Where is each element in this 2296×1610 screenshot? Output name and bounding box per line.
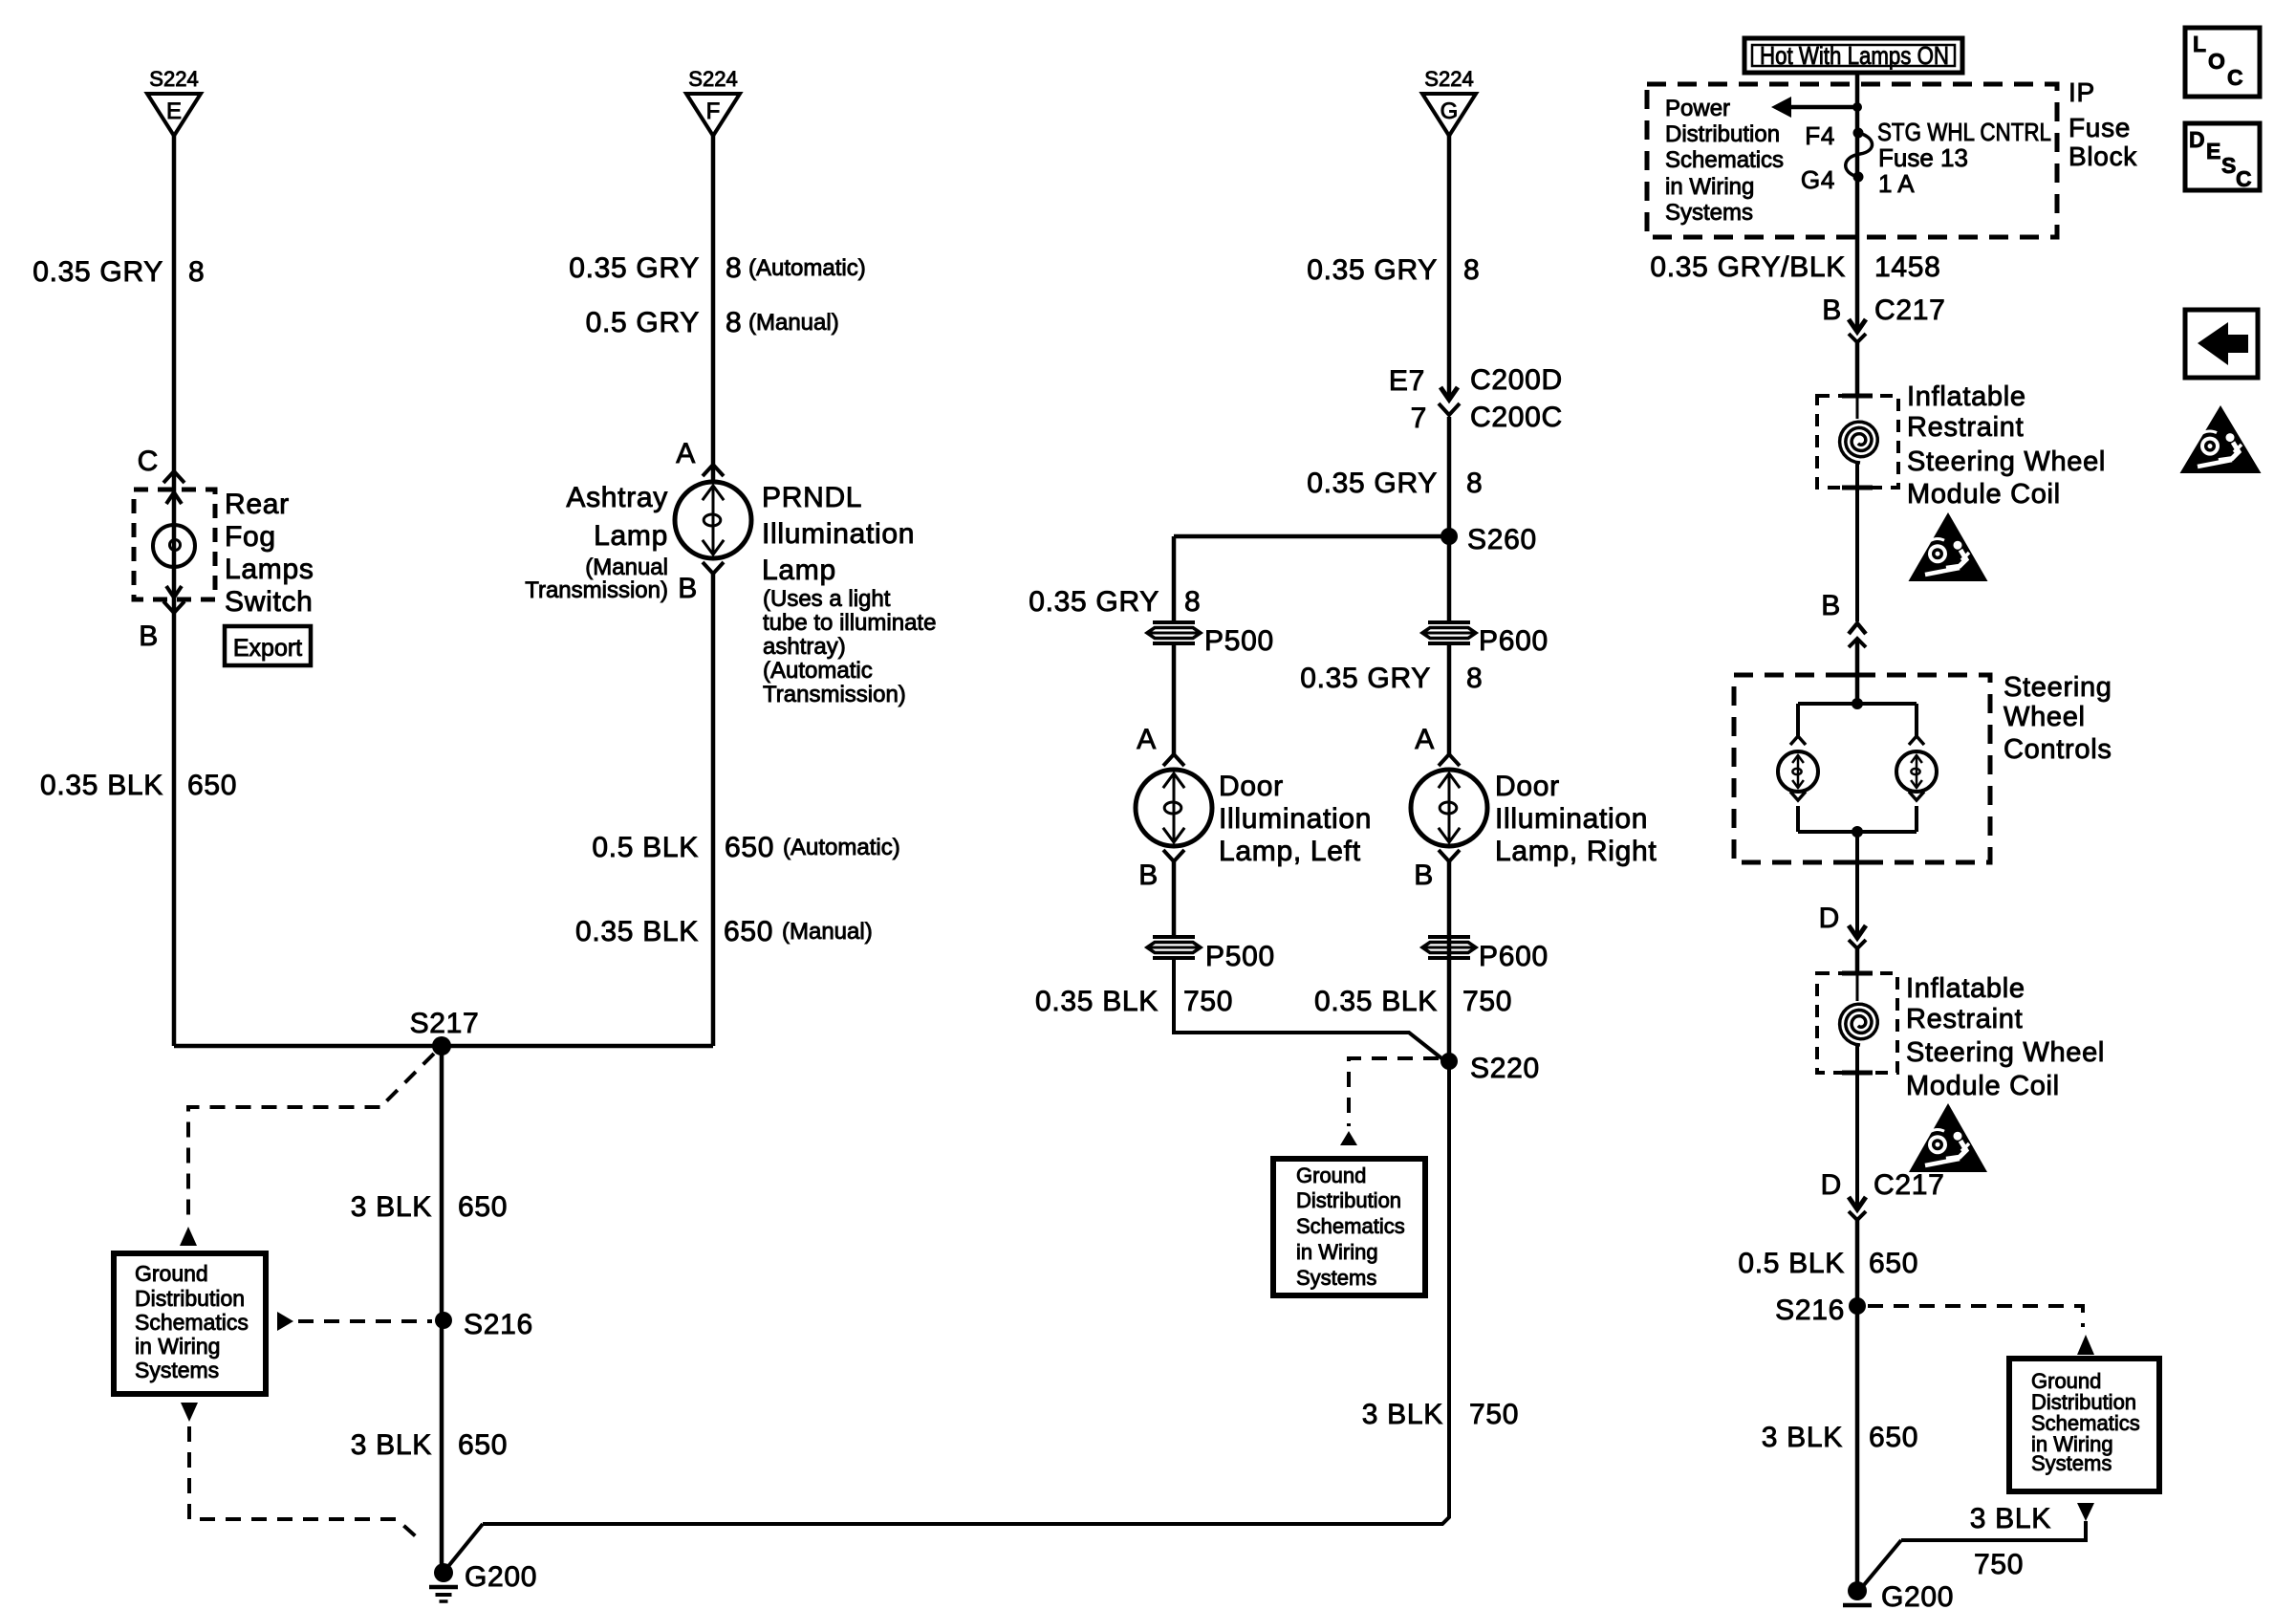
svg-text:Transmission): Transmission) bbox=[763, 682, 906, 707]
svg-text:Hot With Lamps ON: Hot With Lamps ON bbox=[1760, 41, 1949, 70]
svg-text:Restraint: Restraint bbox=[1906, 1004, 2023, 1034]
svg-text:G4: G4 bbox=[1801, 165, 1835, 194]
svg-text:Systems: Systems bbox=[2031, 1451, 2112, 1475]
svg-text:Distribution: Distribution bbox=[1296, 1188, 1401, 1212]
svg-text:B: B bbox=[1822, 294, 1842, 326]
svg-text:Distribution: Distribution bbox=[135, 1286, 245, 1311]
svg-text:Lamp, Right: Lamp, Right bbox=[1495, 836, 1657, 867]
svg-text:Illumination: Illumination bbox=[1219, 803, 1372, 835]
svg-text:1 A: 1 A bbox=[1878, 169, 1915, 198]
svg-text:0.35 GRY: 0.35 GRY bbox=[1307, 468, 1438, 499]
svg-text:Module Coil: Module Coil bbox=[1907, 479, 2061, 510]
svg-text:3 BLK: 3 BLK bbox=[351, 1191, 432, 1223]
svg-text:0.35 GRY: 0.35 GRY bbox=[1300, 663, 1431, 694]
svg-text:(Uses a light: (Uses a light bbox=[763, 586, 891, 612]
svg-text:3 BLK: 3 BLK bbox=[351, 1429, 432, 1461]
svg-text:1458: 1458 bbox=[1874, 251, 1941, 283]
svg-text:650: 650 bbox=[1869, 1422, 1918, 1453]
svg-text:3 BLK: 3 BLK bbox=[1970, 1503, 2051, 1534]
svg-text:0.35 GRY: 0.35 GRY bbox=[32, 256, 163, 288]
svg-text:Distribution: Distribution bbox=[1665, 121, 1780, 147]
svg-text:650: 650 bbox=[724, 916, 773, 947]
svg-text:S224: S224 bbox=[149, 67, 198, 91]
svg-text:(Manual): (Manual) bbox=[748, 310, 839, 336]
svg-text:650: 650 bbox=[458, 1429, 508, 1461]
svg-text:Schematics: Schematics bbox=[135, 1310, 249, 1335]
svg-text:Lamp: Lamp bbox=[594, 520, 668, 552]
svg-text:P500: P500 bbox=[1204, 625, 1274, 657]
svg-text:B: B bbox=[139, 620, 159, 652]
svg-text:750: 750 bbox=[1183, 986, 1233, 1017]
svg-text:Inflatable: Inflatable bbox=[1906, 973, 2025, 1004]
svg-text:Schematics: Schematics bbox=[1665, 147, 1784, 173]
svg-text:0.5 BLK: 0.5 BLK bbox=[1738, 1248, 1845, 1279]
svg-text:G: G bbox=[1440, 98, 1459, 124]
svg-text:Door: Door bbox=[1495, 771, 1560, 802]
svg-text:O: O bbox=[2208, 49, 2225, 74]
svg-text:0.35 BLK: 0.35 BLK bbox=[1035, 986, 1159, 1017]
svg-text:Lamp, Left: Lamp, Left bbox=[1219, 836, 1361, 867]
svg-text:8: 8 bbox=[1466, 468, 1483, 499]
svg-text:B: B bbox=[1821, 590, 1841, 621]
svg-text:C200C: C200C bbox=[1470, 402, 1563, 433]
svg-text:750: 750 bbox=[1462, 986, 1512, 1017]
svg-text:3 BLK: 3 BLK bbox=[1762, 1422, 1843, 1453]
svg-text:A: A bbox=[676, 438, 696, 469]
svg-text:Ground: Ground bbox=[1296, 1164, 1366, 1187]
svg-text:F4: F4 bbox=[1805, 121, 1835, 150]
svg-text:(Automatic): (Automatic) bbox=[748, 255, 866, 281]
svg-text:C: C bbox=[138, 446, 159, 477]
svg-text:L: L bbox=[2193, 32, 2206, 56]
svg-text:S224: S224 bbox=[688, 67, 737, 91]
svg-text:Controls: Controls bbox=[2004, 734, 2112, 765]
svg-text:0.35 BLK: 0.35 BLK bbox=[575, 916, 699, 947]
svg-text:in Wiring: in Wiring bbox=[1296, 1240, 1378, 1264]
svg-text:Power: Power bbox=[1665, 96, 1730, 121]
svg-text:PRNDL: PRNDL bbox=[762, 482, 862, 513]
svg-text:G200: G200 bbox=[1881, 1581, 1954, 1610]
svg-text:P500: P500 bbox=[1205, 941, 1275, 972]
svg-text:P600: P600 bbox=[1479, 941, 1549, 972]
svg-text:Steering Wheel: Steering Wheel bbox=[1907, 446, 2106, 477]
svg-text:P600: P600 bbox=[1479, 625, 1549, 657]
svg-text:Steering: Steering bbox=[2004, 672, 2112, 703]
svg-text:E: E bbox=[2206, 139, 2220, 163]
svg-text:Rear: Rear bbox=[225, 489, 290, 520]
svg-text:D: D bbox=[1819, 903, 1840, 934]
svg-text:Wheel: Wheel bbox=[2004, 702, 2086, 732]
svg-text:E7: E7 bbox=[1389, 365, 1425, 397]
svg-text:8: 8 bbox=[726, 252, 742, 284]
svg-text:in Wiring: in Wiring bbox=[1665, 174, 1754, 200]
svg-text:C200D: C200D bbox=[1470, 364, 1563, 396]
svg-text:Inflatable: Inflatable bbox=[1907, 381, 2026, 412]
svg-text:0.35 GRY: 0.35 GRY bbox=[569, 252, 700, 284]
svg-text:Systems: Systems bbox=[135, 1358, 219, 1382]
svg-text:C: C bbox=[2227, 65, 2243, 90]
svg-text:Lamps: Lamps bbox=[225, 554, 314, 585]
svg-text:(Automatic): (Automatic) bbox=[783, 835, 900, 860]
svg-text:ashtray): ashtray) bbox=[763, 634, 846, 660]
svg-text:Switch: Switch bbox=[225, 586, 314, 618]
svg-text:in Wiring: in Wiring bbox=[135, 1334, 220, 1359]
svg-text:7: 7 bbox=[1411, 402, 1427, 434]
svg-text:S224: S224 bbox=[1424, 67, 1473, 91]
svg-text:S220: S220 bbox=[1470, 1053, 1540, 1084]
svg-text:650: 650 bbox=[187, 770, 237, 801]
svg-text:750: 750 bbox=[1469, 1399, 1519, 1430]
svg-text:G200: G200 bbox=[465, 1561, 537, 1593]
svg-text:8: 8 bbox=[1466, 663, 1483, 694]
svg-text:S216: S216 bbox=[1775, 1295, 1845, 1326]
svg-text:F: F bbox=[706, 98, 721, 124]
svg-text:D: D bbox=[1821, 1169, 1842, 1201]
svg-text:C217: C217 bbox=[1874, 294, 1946, 326]
svg-text:Door: Door bbox=[1219, 771, 1284, 802]
svg-text:STG WHL CNTRL: STG WHL CNTRL bbox=[1877, 118, 2051, 146]
svg-text:3 BLK: 3 BLK bbox=[1362, 1399, 1443, 1430]
svg-text:0.35 BLK: 0.35 BLK bbox=[1314, 986, 1438, 1017]
svg-text:0.5 GRY: 0.5 GRY bbox=[586, 307, 700, 338]
svg-text:Ground: Ground bbox=[135, 1261, 208, 1286]
svg-text:0.35 BLK: 0.35 BLK bbox=[40, 770, 163, 801]
svg-text:Restraint: Restraint bbox=[1907, 412, 2024, 443]
svg-text:Transmission): Transmission) bbox=[525, 577, 668, 603]
svg-text:S216: S216 bbox=[464, 1309, 533, 1340]
svg-text:S: S bbox=[2221, 153, 2236, 178]
svg-text:Illumination: Illumination bbox=[762, 518, 915, 550]
svg-text:Lamp: Lamp bbox=[762, 555, 836, 586]
svg-text:S260: S260 bbox=[1467, 524, 1537, 555]
svg-text:B: B bbox=[1138, 859, 1159, 891]
svg-text:Module Coil: Module Coil bbox=[1906, 1071, 2060, 1101]
svg-text:A: A bbox=[1415, 724, 1435, 755]
svg-text:Block: Block bbox=[2069, 141, 2137, 171]
svg-text:Schematics: Schematics bbox=[1296, 1214, 1405, 1238]
svg-text:Fog: Fog bbox=[225, 521, 276, 553]
svg-text:8: 8 bbox=[1463, 254, 1480, 286]
svg-text:D: D bbox=[2189, 127, 2205, 152]
svg-text:Fuse 13: Fuse 13 bbox=[1878, 143, 1968, 172]
svg-text:Systems: Systems bbox=[1665, 200, 1753, 226]
svg-text:650: 650 bbox=[725, 832, 774, 863]
svg-text:(Automatic: (Automatic bbox=[763, 658, 873, 684]
svg-text:(Manual: (Manual bbox=[585, 555, 668, 580]
svg-text:C217: C217 bbox=[1874, 1169, 1945, 1201]
svg-text:750: 750 bbox=[1974, 1549, 2024, 1580]
svg-text:0.35 GRY: 0.35 GRY bbox=[1029, 586, 1159, 618]
svg-text:8: 8 bbox=[188, 256, 205, 288]
svg-text:C: C bbox=[2236, 166, 2252, 191]
svg-text:tube to illuminate: tube to illuminate bbox=[763, 610, 936, 636]
svg-text:E: E bbox=[166, 98, 182, 124]
svg-text:Export: Export bbox=[233, 635, 302, 662]
svg-text:IP: IP bbox=[2069, 77, 2095, 107]
svg-text:8: 8 bbox=[1184, 586, 1201, 618]
svg-text:S217: S217 bbox=[410, 1008, 480, 1039]
svg-text:Illumination: Illumination bbox=[1495, 803, 1648, 835]
svg-text:Fuse: Fuse bbox=[2069, 113, 2131, 142]
svg-text:A: A bbox=[1137, 724, 1157, 755]
svg-text:650: 650 bbox=[458, 1191, 508, 1223]
svg-text:B: B bbox=[1414, 859, 1434, 891]
svg-text:Systems: Systems bbox=[1296, 1266, 1376, 1290]
svg-text:Steering Wheel: Steering Wheel bbox=[1906, 1037, 2105, 1068]
svg-text:Ashtray: Ashtray bbox=[566, 482, 668, 513]
svg-text:650: 650 bbox=[1869, 1248, 1918, 1279]
svg-text:(Manual): (Manual) bbox=[782, 919, 873, 945]
svg-text:0.5 BLK: 0.5 BLK bbox=[592, 832, 699, 863]
svg-text:0.35 GRY/BLK: 0.35 GRY/BLK bbox=[1650, 251, 1846, 283]
svg-text:8: 8 bbox=[726, 307, 742, 338]
svg-text:0.35 GRY: 0.35 GRY bbox=[1307, 254, 1438, 286]
svg-text:B: B bbox=[678, 573, 698, 604]
